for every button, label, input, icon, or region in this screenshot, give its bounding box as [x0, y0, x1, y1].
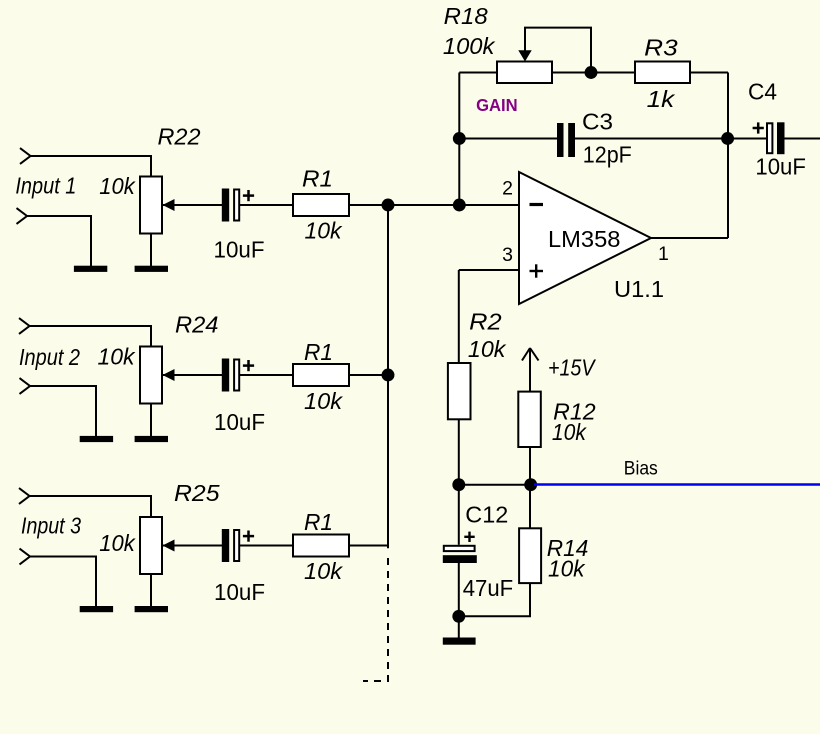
svg-text:10k: 10k: [468, 336, 507, 362]
svg-text:10uF: 10uF: [214, 236, 265, 262]
svg-text:R18: R18: [444, 3, 488, 29]
svg-text:100k: 100k: [443, 33, 496, 59]
svg-text:R1: R1: [302, 165, 333, 191]
svg-text:1k: 1k: [647, 86, 676, 112]
svg-text:10k: 10k: [304, 558, 344, 584]
svg-text:10uF: 10uF: [755, 154, 806, 180]
svg-text:3: 3: [502, 244, 513, 266]
svg-text:U1.1: U1.1: [614, 276, 664, 302]
svg-text:12pF: 12pF: [583, 142, 632, 168]
svg-text:C3: C3: [582, 109, 613, 135]
svg-text:C12: C12: [465, 501, 508, 527]
svg-text:10k: 10k: [304, 388, 344, 414]
svg-text:10k: 10k: [552, 419, 587, 445]
svg-text:1: 1: [658, 243, 669, 265]
svg-text:C4: C4: [748, 78, 777, 104]
svg-text:R24: R24: [175, 312, 219, 338]
svg-text:LM358: LM358: [548, 226, 621, 252]
svg-text:R25: R25: [174, 480, 220, 506]
svg-text:R2: R2: [469, 309, 502, 335]
svg-text:47uF: 47uF: [463, 575, 514, 601]
svg-text:Input 2: Input 2: [19, 344, 80, 370]
svg-text:Input 1: Input 1: [15, 173, 76, 199]
svg-text:R22: R22: [158, 124, 201, 150]
svg-text:10uF: 10uF: [214, 409, 265, 435]
svg-text:Input 3: Input 3: [21, 513, 81, 539]
svg-text:GAIN: GAIN: [476, 95, 517, 115]
svg-text:10k: 10k: [98, 344, 136, 370]
svg-text:R3: R3: [644, 35, 678, 61]
svg-text:10k: 10k: [99, 173, 136, 199]
svg-text:10k: 10k: [548, 556, 586, 582]
svg-text:R1: R1: [304, 339, 333, 365]
svg-text:Bias: Bias: [624, 458, 658, 479]
svg-text:10k: 10k: [305, 218, 343, 244]
svg-text:2: 2: [502, 178, 513, 200]
svg-text:10k: 10k: [99, 530, 136, 556]
svg-text:R1: R1: [304, 509, 333, 535]
svg-text:10uF: 10uF: [214, 579, 265, 605]
svg-text:+15V: +15V: [548, 354, 597, 380]
